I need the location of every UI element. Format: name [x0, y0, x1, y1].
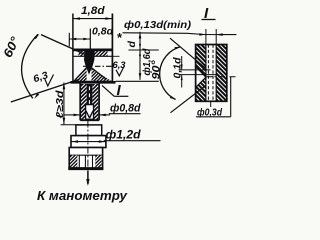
svg-text:0,1d: 0,1d: [173, 57, 184, 79]
svg-text:К манометру: К манометру: [37, 188, 128, 203]
svg-text:ф1,2d: ф1,2d: [106, 130, 142, 142]
svg-text:d: d: [126, 41, 138, 48]
svg-text:0,8d: 0,8d: [92, 25, 114, 37]
svg-text:ф0,13d(min): ф0,13d(min): [124, 19, 192, 31]
svg-text:1,8d: 1,8d: [81, 5, 105, 17]
svg-text:ф0,8d: ф0,8d: [110, 103, 141, 115]
svg-text:ℓ≥3d: ℓ≥3d: [55, 89, 66, 118]
